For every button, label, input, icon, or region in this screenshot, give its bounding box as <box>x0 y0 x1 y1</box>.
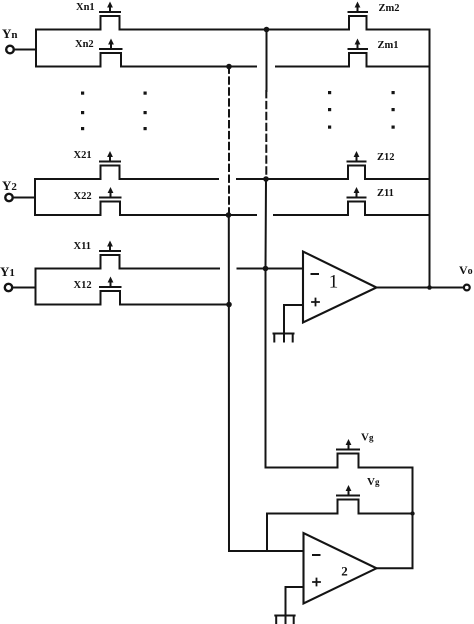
wire op2 minus input from B1 <box>229 550 304 552</box>
svg-text:2: 2 <box>341 564 348 579</box>
wire bus B2 dashed section <box>265 91 267 179</box>
wire op1 output to Vo <box>377 287 464 289</box>
wire B2 down to Vg1 row <box>266 467 338 469</box>
svg-text:X11: X11 <box>74 241 92 252</box>
svg-text:Xn1: Xn1 <box>76 2 95 13</box>
node junction row3-B2 <box>263 176 269 182</box>
wire Vg2 source down to op2 minus <box>266 514 268 552</box>
transistor Zm1 <box>349 39 368 67</box>
ellipsis left column b <box>144 92 147 131</box>
wire op2 output feedback <box>377 567 413 569</box>
op-amp U1 plus pin <box>312 299 319 306</box>
transistor X21 <box>100 151 120 179</box>
ground op2 <box>275 616 294 624</box>
wire bus B1 solid section <box>228 215 230 551</box>
transistor Z12 <box>348 151 366 179</box>
terminal Y1 <box>5 284 12 291</box>
wire Y2 stub <box>13 179 35 215</box>
wire bus B2 top solid section <box>266 30 268 92</box>
transistor X22 <box>100 187 121 215</box>
ellipsis right column b <box>392 91 395 129</box>
wire row2 Xn2/Zm1 net <box>36 66 430 68</box>
node junction row4-B1 <box>226 212 232 218</box>
wire Vg2 row <box>267 513 413 515</box>
wire op1 output bus right <box>429 30 431 288</box>
wire row6 X12 to B1 <box>36 304 230 306</box>
svg-text:Vg: Vg <box>361 432 374 444</box>
svg-text:X22: X22 <box>74 191 92 202</box>
terminal Y2 <box>5 194 12 201</box>
node junction Vg2-output bus <box>410 511 414 515</box>
wire bus B2 middle solid section <box>265 179 268 468</box>
svg-text:Vo: Vo <box>459 263 473 277</box>
transistor Vg1 <box>337 439 359 468</box>
transistor Zm2 <box>349 2 368 30</box>
wire row3 X21/Z12 net <box>35 178 429 180</box>
ground op1 <box>274 334 294 342</box>
wire op1 plus input <box>284 305 303 342</box>
node junction row6-B1 <box>226 302 232 308</box>
transistor Z11 <box>348 187 366 215</box>
terminal Yn <box>6 46 14 54</box>
svg-text:Zm2: Zm2 <box>379 3 400 14</box>
svg-text:Z12: Z12 <box>377 152 395 163</box>
node junction output bus <box>427 285 432 290</box>
svg-text:1: 1 <box>329 272 339 293</box>
op-amp U2 plus pin <box>313 579 320 586</box>
op-amp U1 minus pin <box>312 273 319 275</box>
wire bus B1 dashed section <box>228 67 230 216</box>
ellipsis left column a <box>81 92 84 131</box>
wire Yn stub <box>14 30 36 67</box>
wire Y1 stub <box>12 269 35 305</box>
transistor X12 <box>100 277 121 305</box>
node junction row1-B2 <box>264 27 270 33</box>
node junction row5-B2 <box>263 266 269 272</box>
op-amp U2 <box>304 533 377 604</box>
op-amp U2 minus pin <box>313 554 320 556</box>
op-amp U1 <box>303 252 377 323</box>
terminal Vo <box>464 285 470 291</box>
svg-text:Yn: Yn <box>2 26 18 41</box>
transistor Vg2 <box>337 485 359 514</box>
svg-text:X12: X12 <box>74 280 92 291</box>
node junction row2-B1 <box>226 64 232 70</box>
transistor X11 <box>100 241 120 269</box>
svg-text:Y2: Y2 <box>2 178 17 193</box>
svg-text:Zm1: Zm1 <box>378 40 399 51</box>
wire row1 Xn1/Zm2 net <box>36 29 430 31</box>
wire row4 X22/Z11 net <box>35 214 429 216</box>
svg-text:X21: X21 <box>74 150 92 161</box>
svg-text:Vg: Vg <box>367 476 380 488</box>
wire row5 X11 to op-amp minus <box>36 268 304 270</box>
wire op2 plus input <box>286 587 304 624</box>
transistor Xn2 <box>100 39 122 67</box>
wire Vg1 drain to op2 output bus <box>359 468 413 569</box>
ellipsis right column a <box>328 91 331 129</box>
transistor Xn1 <box>100 2 120 30</box>
svg-text:Xn2: Xn2 <box>75 39 94 50</box>
svg-text:Y1: Y1 <box>0 264 15 279</box>
svg-text:Z11: Z11 <box>377 188 394 199</box>
